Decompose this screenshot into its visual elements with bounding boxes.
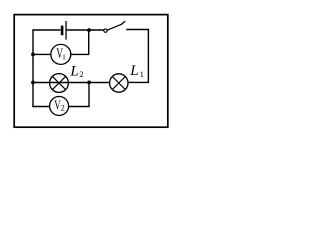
- svg-text:L: L: [129, 63, 138, 79]
- svg-text:2: 2: [61, 104, 65, 113]
- junction dot node B: [87, 81, 91, 85]
- lamp L1: [110, 74, 128, 92]
- junction dot node A: [87, 28, 91, 32]
- wire lamp L1 to junction: [89, 82, 110, 84]
- wire left rail to voltmeter V1: [33, 53, 51, 55]
- wire battery to switch: [67, 29, 104, 31]
- lamp L2: [50, 74, 69, 93]
- wire voltmeter V2 to left rail bottom corner: [32, 106, 49, 108]
- svg-text:1: 1: [62, 52, 66, 61]
- svg-text:L: L: [69, 63, 78, 79]
- label L1: [129, 63, 144, 79]
- wire node B down to voltmeter V2: [69, 83, 89, 107]
- wire junction to lamp L2: [68, 82, 89, 84]
- wire lamp L2 to left rail: [33, 82, 68, 84]
- wire voltmeter V1 to node A rail: [71, 30, 89, 54]
- svg-text:2: 2: [79, 69, 83, 79]
- switch: [104, 22, 125, 33]
- voltmeter V1: [51, 44, 71, 64]
- wire left rail: [32, 29, 34, 106]
- wire top-left segment: [33, 29, 61, 31]
- label L2: [69, 63, 83, 79]
- wire switch to right rail into lamp L1: [126, 30, 148, 83]
- battery: [61, 21, 67, 40]
- junction dot left rail upper: [31, 53, 35, 57]
- junction dot left rail lower: [31, 81, 35, 85]
- voltmeter V2: [50, 97, 69, 116]
- svg-text:1: 1: [140, 69, 144, 79]
